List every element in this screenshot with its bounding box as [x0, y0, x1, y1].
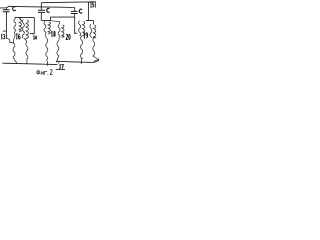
- wire block3 elbow to W3b: [92, 21, 94, 25]
- inductor winding W3b: [90, 24, 92, 37]
- inductor winding W1a: [14, 19, 16, 31]
- capacitor C2 wire from top bus: [40, 3, 42, 10]
- wire tail5 wavy: [81, 36, 83, 63]
- wire top bus lower: [0, 6, 75, 8]
- label 16: [16, 34, 17, 39]
- label 19: [84, 33, 85, 38]
- capacitor C3 label c: [79, 9, 82, 13]
- wire label 17 tick: [58, 62, 60, 64]
- node tail2 bus junction: [26, 63, 27, 64]
- inductor winding W2a: [44, 21, 46, 34]
- wire block2 top line: [41, 20, 50, 22]
- wire block3 top line: [86, 20, 94, 22]
- label figure caption: [37, 70, 49, 75]
- capacitor C1 label c: [13, 7, 16, 11]
- inductor winding W1b: [22, 20, 24, 39]
- wire antenna 15: [87, 2, 89, 20]
- label 18: [51, 32, 52, 37]
- capacitor C3 stub from lower bus: [74, 8, 76, 12]
- wire bottom bus right: [56, 61, 98, 63]
- node tail1 junction: [13, 42, 14, 43]
- wire bottom bus right end hook: [98, 59, 100, 61]
- node tail1 bus junction: [16, 63, 17, 64]
- wire bottom bus left: [2, 63, 57, 64]
- node tail4 at right bus: [56, 61, 57, 62]
- inductor winding W2b: [58, 24, 60, 37]
- wire block2 upper link vertical: [49, 17, 51, 21]
- node W1b bottom: [24, 38, 25, 39]
- wire upper link line: [50, 16, 74, 18]
- label 15: [90, 2, 91, 7]
- wire tail4 wavy: [57, 37, 59, 61]
- capacitor C2 label c: [47, 8, 50, 12]
- wire block3 tap foot: [75, 32, 78, 34]
- wire capacitor C1 zigzag connector: [6, 39, 13, 43]
- capacitor C1 plates: [3, 10, 10, 12]
- node block2 line: [50, 20, 51, 21]
- capacitor C3 plates: [71, 11, 78, 13]
- wire top bus right end tick: [94, 1, 96, 7]
- label 20: [66, 35, 68, 40]
- node tail3 bus junction: [47, 63, 48, 64]
- wire block1 tap vertical: [33, 17, 35, 33]
- wire block1 tap foot: [30, 33, 35, 35]
- capacitor C2 plates: [38, 10, 45, 12]
- label 13: [1, 34, 2, 38]
- wire tail6 wavy: [93, 37, 98, 62]
- label figure number 2: [50, 69, 52, 74]
- wire capacitor C1 down: [5, 12, 7, 39]
- node arrowhead on wire 15: [88, 2, 90, 4]
- wire block1 top stub: [19, 17, 21, 19]
- wire block2 elbow to W2b: [50, 21, 59, 25]
- wire tail2 wavy: [25, 39, 28, 63]
- wire tail5 bus tick: [80, 62, 82, 64]
- wire tail3 wavy: [46, 34, 48, 64]
- inductor winding W3a: [79, 21, 81, 36]
- wire capacitor C3 down: [74, 14, 76, 34]
- wire capacitor C1 foot: [3, 30, 7, 32]
- wire top bus upper: [41, 1, 95, 4]
- capacitor C1 stub: [5, 8, 7, 10]
- node block1 tap foot: [32, 33, 33, 34]
- node block3 tap foot: [74, 33, 75, 34]
- node block1 top: [19, 18, 20, 19]
- wire capacitor C2 down: [40, 13, 42, 21]
- wire tail1 wavy: [13, 31, 16, 63]
- wire block1 top line: [15, 17, 34, 18]
- label 17: [59, 65, 60, 69]
- label 14: [33, 36, 34, 40]
- wire tail3 bus tick: [47, 64, 49, 66]
- node block3 line: [88, 20, 89, 21]
- node tail5 bus junction: [81, 62, 82, 63]
- wire label 17 underline: [56, 68, 65, 70]
